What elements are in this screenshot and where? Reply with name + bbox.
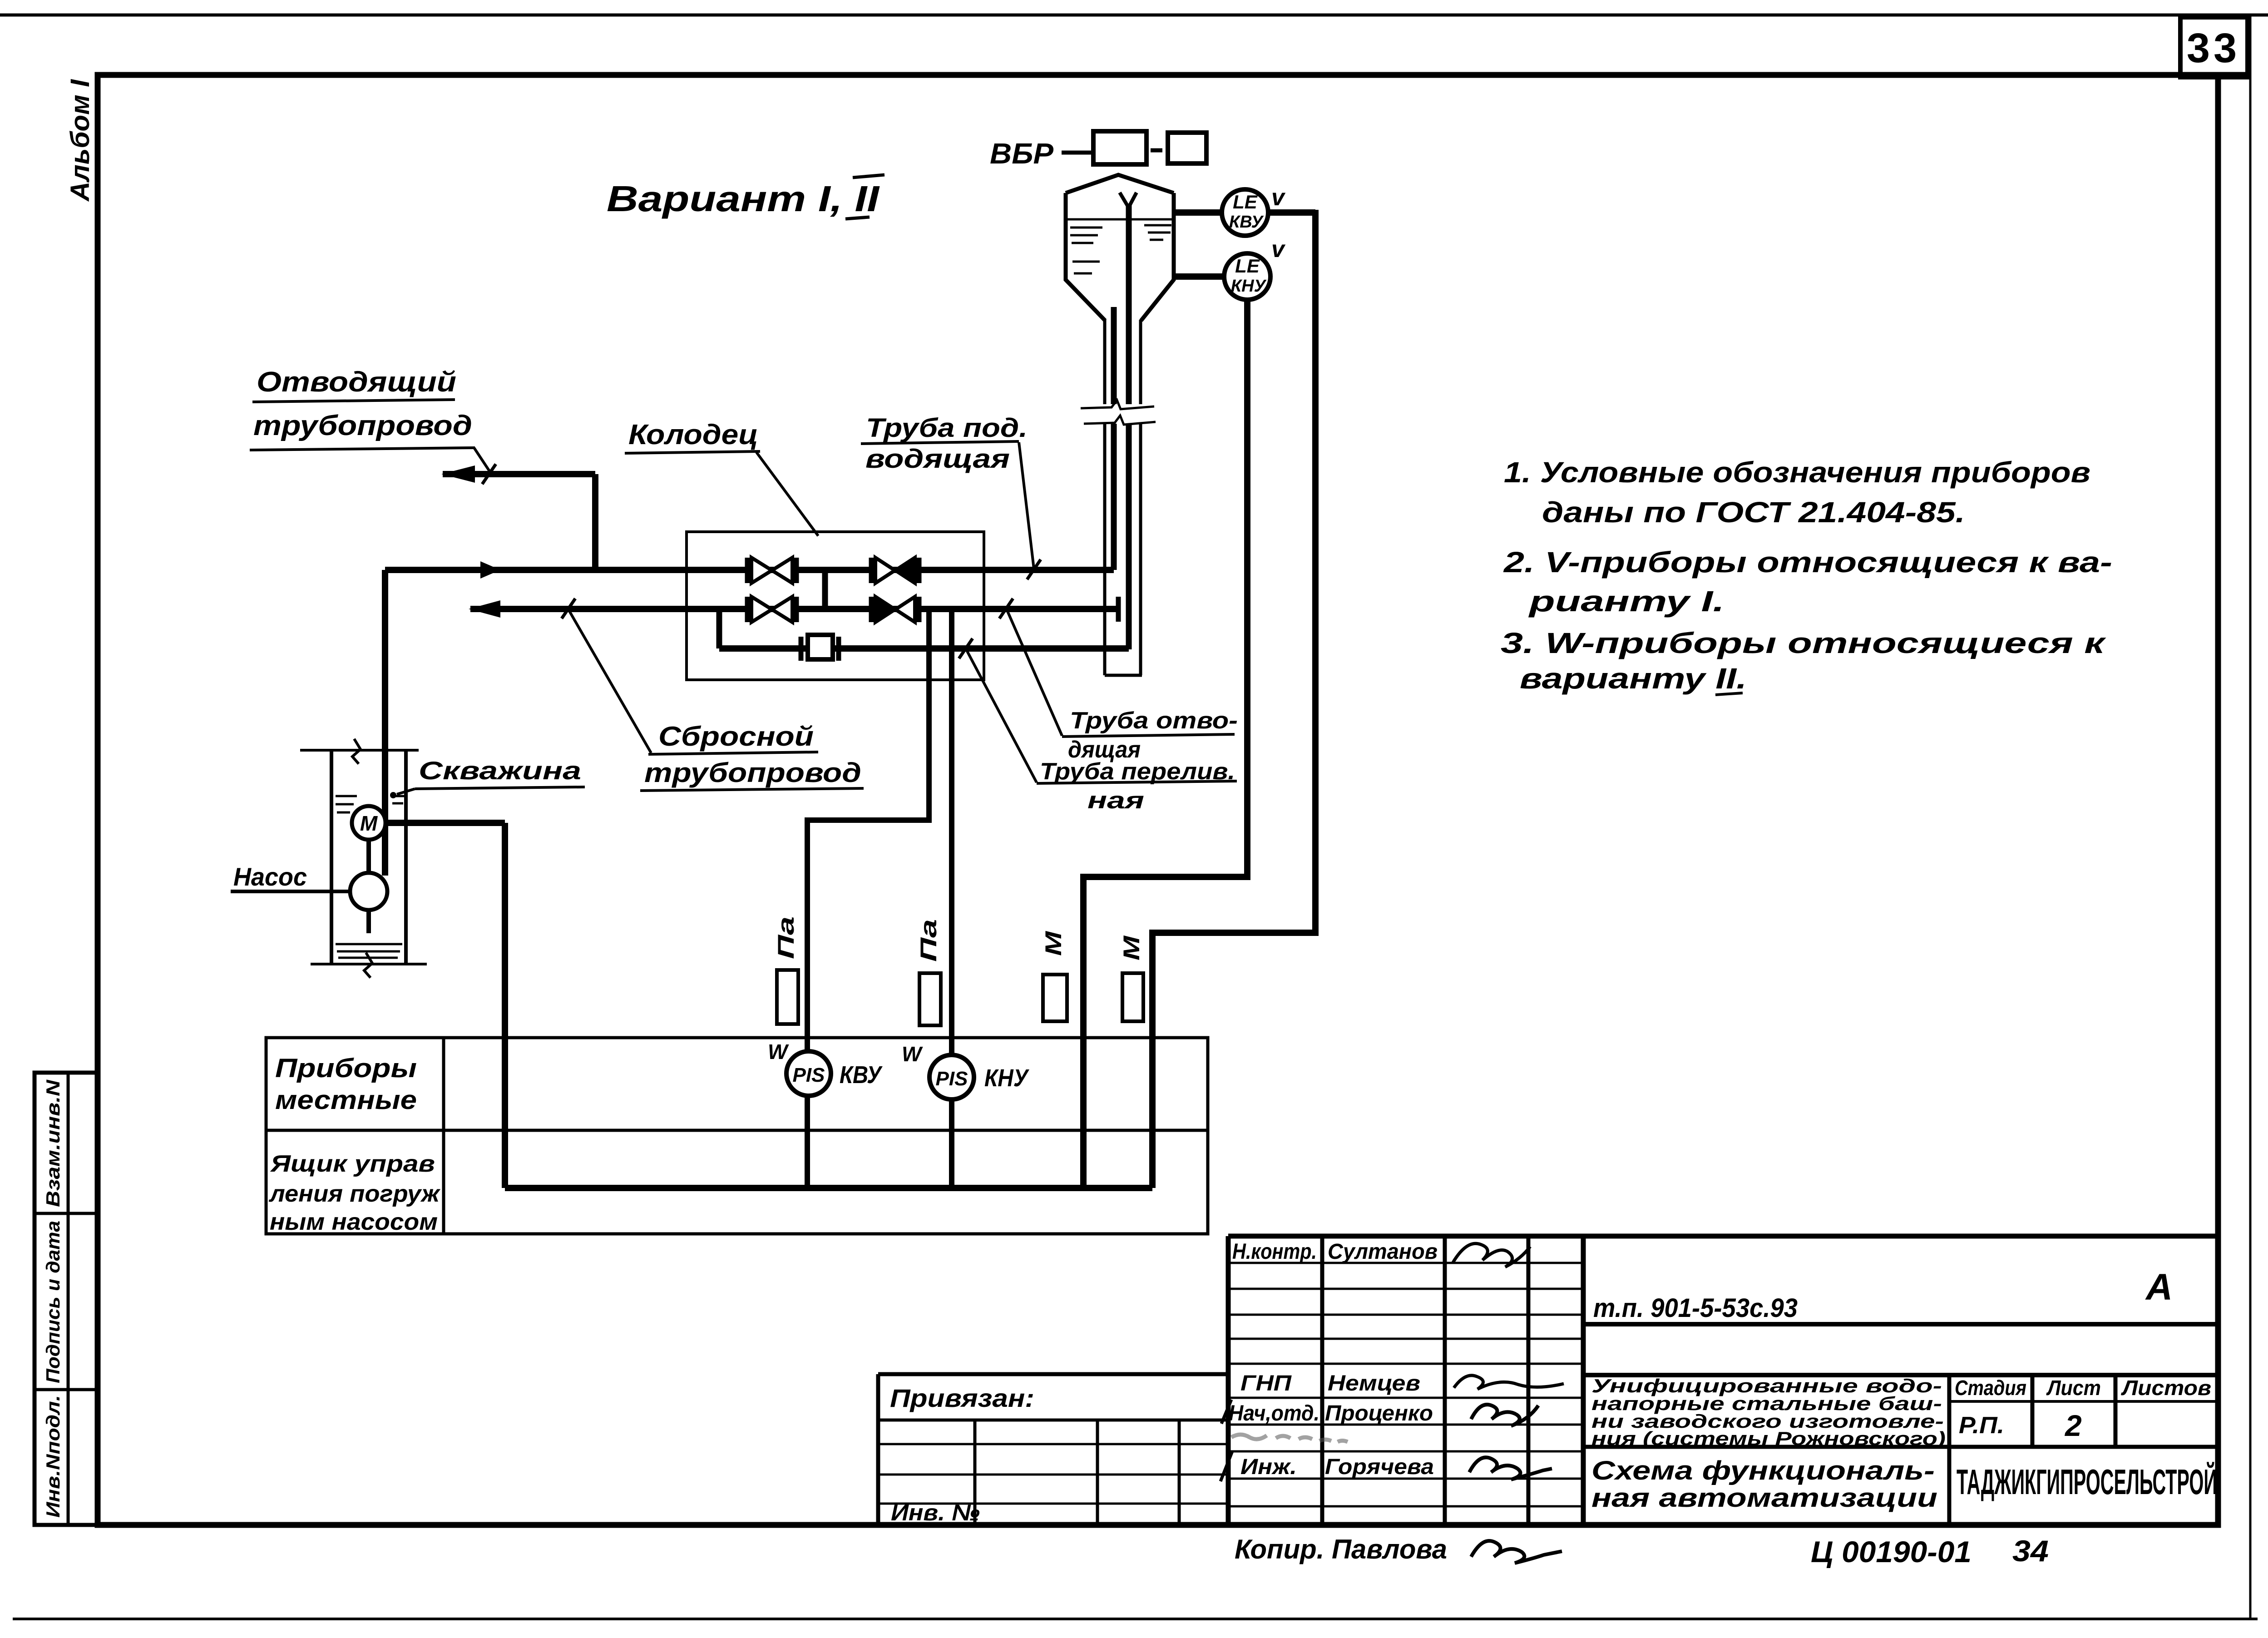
- wire КВУ to right riser: [1268, 209, 1315, 216]
- svg-text:2: 2: [2064, 1409, 2082, 1442]
- svg-text:Р.П.: Р.П.: [1959, 1412, 2004, 1439]
- left stamp column box: [35, 1073, 98, 1525]
- attachment box column lines: [973, 1420, 977, 1525]
- svg-text:Колодец: Колодец: [628, 419, 758, 450]
- svg-text:Альбом I: Альбом I: [65, 79, 95, 202]
- svg-text:Сбросной: Сбросной: [658, 721, 814, 752]
- wire tank to level sensor КВУ: [1174, 209, 1222, 216]
- borehole ground line top with break: [300, 749, 419, 752]
- leader to overflow pipe tick: [967, 651, 1037, 782]
- water hatching right: [1144, 224, 1171, 227]
- svg-text:местные: местные: [275, 1085, 417, 1115]
- right block horizontal line under т.п.: [1583, 1322, 2218, 1326]
- svg-text:Отводящий: Отводящий: [257, 366, 456, 398]
- wire PIS КВУ to bus: [805, 1096, 810, 1188]
- svg-text:Скважина: Скважина: [419, 756, 581, 785]
- svg-text:Стадия: Стадия: [1955, 1376, 2026, 1400]
- pipe break line lower: [1084, 416, 1156, 425]
- water tower tank top: [1066, 175, 1174, 193]
- svg-text:М: М: [1041, 930, 1066, 956]
- svg-text:трубопровод: трубопровод: [253, 410, 472, 441]
- tick on outlet pipe right: [999, 599, 1013, 619]
- water hatching left: [1070, 227, 1102, 229]
- attachment box Привязан: [878, 1372, 1228, 1376]
- control line down to box: [502, 823, 508, 1188]
- tank left wall and funnel: [1066, 193, 1105, 321]
- svg-text:Па: Па: [916, 919, 941, 962]
- outlet pipe end cap: [1116, 597, 1121, 622]
- borehole bottom line with break: [311, 963, 427, 965]
- svg-text:Горячева: Горячева: [1325, 1455, 1434, 1479]
- svg-text:Труба отво-: Труба отво-: [1070, 708, 1238, 734]
- right block horizontal line above project name: [1583, 1373, 2218, 1377]
- signature table column 2 line: [1320, 1236, 1324, 1525]
- instrument table horizontal divider: [266, 1129, 1208, 1132]
- discharge arrowhead: [441, 465, 475, 483]
- svg-text:КНУ: КНУ: [984, 1064, 1029, 1092]
- svg-text:34: 34: [2012, 1534, 2049, 1568]
- svg-text:Султанов: Султанов: [1328, 1240, 1438, 1264]
- block 2 (instrument box): [1168, 133, 1206, 163]
- pump tail line: [366, 910, 371, 933]
- bypass pipe between supply and outlet: [822, 570, 828, 609]
- label Труба отводящая: [1007, 610, 1238, 763]
- pipe break line upper: [1081, 400, 1154, 409]
- svg-text:трубопровод: трубопровод: [644, 757, 861, 788]
- wire PIS КНУ to bus: [949, 1099, 954, 1188]
- submersible pump circle: [350, 873, 387, 910]
- svg-text:Схема функциональ-: Схема функциональ-: [1591, 1456, 1935, 1485]
- motor shaft: [366, 840, 371, 873]
- svg-text:варианту II.: варианту II.: [1520, 662, 1747, 695]
- sheet top edge line: [0, 14, 2268, 17]
- flow device body: [808, 635, 833, 659]
- svg-text:Ящик управ: Ящик управ: [270, 1151, 435, 1177]
- sheet bottom edge line: [13, 1618, 2258, 1620]
- standpipe casing right wall upper: [1139, 320, 1142, 404]
- valve V1 gate valve on supply pipe: [745, 558, 750, 583]
- tank right wall and funnel: [1141, 193, 1174, 321]
- borehole casing left wall: [330, 750, 333, 964]
- label Скважина: [390, 756, 585, 798]
- block 1 (instrument box): [1093, 131, 1146, 164]
- tick on outlet pipe left: [562, 599, 575, 619]
- svg-text:Лист: Лист: [2046, 1376, 2101, 1400]
- supply riser pipe lower: [1111, 424, 1117, 570]
- instrument table outline: [266, 1038, 1208, 1234]
- svg-text:v: v: [1271, 184, 1286, 211]
- stage column dividers: [2031, 1375, 2035, 1447]
- tick on discharge line: [482, 464, 496, 484]
- svg-text:водящая: водящая: [865, 444, 1010, 474]
- svg-text:ным насосом: ным насосом: [270, 1209, 438, 1235]
- valve V4 check valve on outlet pipe: [869, 597, 874, 622]
- svg-text:ГНП: ГНП: [1240, 1371, 1292, 1396]
- svg-text:33: 33: [2187, 25, 2240, 71]
- svg-text:Н.контр.: Н.контр.: [1232, 1240, 1317, 1264]
- svg-text:даны по ГОСТ 21.404-85.: даны по ГОСТ 21.404-85.: [1542, 496, 1965, 529]
- tick on overflow pipe: [959, 638, 973, 658]
- label Труба подводящая: [861, 413, 1034, 569]
- svg-text:М: М: [1119, 935, 1144, 960]
- overflow pipe (central riser upper): [1126, 205, 1132, 404]
- frame top line extension under sheet number box: [2218, 72, 2250, 78]
- svg-text:КВУ: КВУ: [840, 1061, 883, 1089]
- svg-text:1. Условные обозначения прибор: 1. Условные обозначения приборов: [1504, 456, 2090, 489]
- wire tank to level sensor КНУ: [1174, 273, 1225, 280]
- borehole casing right wall: [404, 750, 408, 964]
- control bus in pump control box row: [505, 1185, 1152, 1191]
- signature table row lines: [1228, 1262, 1583, 1264]
- svg-text:LE: LE: [1235, 255, 1260, 277]
- dash between blocks: [1151, 148, 1162, 153]
- outlet arrowhead left: [469, 600, 500, 618]
- svg-text:ТАДЖИКГИПРОСЕЛЬСТРОЙ: ТАДЖИКГИПРОСЕЛЬСТРОЙ: [1957, 1462, 2217, 1502]
- svg-text:Инж.: Инж.: [1240, 1455, 1297, 1479]
- signature table left edge: [1226, 1236, 1231, 1525]
- borehole water hatching top: [336, 795, 357, 797]
- underbar of numeral II in note 3: [1715, 693, 1743, 695]
- slash before Нач.отд.: [1221, 1400, 1231, 1424]
- overflow pipe horizontal: [719, 645, 1129, 652]
- svg-text:2. V-приборы относящиеся к ва-: 2. V-приборы относящиеся к ва-: [1503, 546, 2112, 579]
- standpipe casing right wall lower: [1139, 424, 1142, 675]
- svg-text:W: W: [768, 1040, 789, 1064]
- wire КНУ down: [1083, 300, 1247, 1188]
- leader to supply pipe: [1019, 442, 1034, 569]
- leader to well chamber box: [756, 452, 818, 536]
- svg-text:v: v: [1271, 236, 1286, 262]
- svg-text:Привязан:: Привязан:: [890, 1384, 1034, 1412]
- underbar of numeral II: [845, 217, 870, 219]
- svg-text:т.п. 901-5-53с.93: т.п. 901-5-53с.93: [1593, 1293, 1798, 1323]
- supply pipe left drop into borehole: [382, 570, 388, 876]
- label Сбросной трубопровод: [569, 610, 864, 791]
- svg-text:Листов: Листов: [2121, 1376, 2211, 1400]
- svg-text:Па: Па: [773, 916, 799, 959]
- overflow branch drop from outlet pipe: [716, 609, 722, 648]
- instrument drop line to PIS КНУ: [949, 609, 954, 1054]
- wire motor to control line: [385, 820, 505, 826]
- svg-text:Проценко: Проценко: [1325, 1401, 1433, 1425]
- svg-text:ния (системы Рожновского): ния (системы Рожновского): [1591, 1428, 1946, 1449]
- signature of Горячева: [1469, 1457, 1552, 1480]
- left stamp inner divider: [67, 1073, 70, 1525]
- standpipe casing left wall lower: [1103, 424, 1107, 675]
- smudged stamp row: [1231, 1435, 1348, 1442]
- svg-text:Инв. №: Инв. №: [891, 1500, 980, 1525]
- svg-text:Подпись и дата: Подпись и дата: [42, 1221, 64, 1383]
- svg-text:Труба под.: Труба под.: [866, 413, 1028, 443]
- svg-text:Копир. Павлова: Копир. Павлова: [1235, 1534, 1447, 1564]
- leader to outlet pipe: [569, 610, 651, 753]
- svg-text:PIS: PIS: [936, 1068, 968, 1090]
- pressure switch PIS КВУ: [786, 1051, 831, 1096]
- attachment box row lines: [878, 1419, 1228, 1422]
- instrument table vertical divider: [442, 1038, 445, 1234]
- svg-text:КВУ: КВУ: [1229, 213, 1264, 232]
- valve V2 check valve on supply pipe: [869, 558, 874, 583]
- supply pipe horizontal: [385, 567, 1114, 573]
- notes text block: [1501, 456, 2112, 695]
- label Колодец: [625, 419, 818, 536]
- flow device on overflow pipe flanges: [799, 637, 804, 661]
- connector tag Па 2: [919, 973, 941, 1025]
- outlet pipe horizontal: [470, 606, 1118, 612]
- level sensor LE КВУ: [1222, 189, 1268, 236]
- signature table column 3 line: [1443, 1236, 1447, 1525]
- wire right riser down: [1152, 210, 1315, 1188]
- signature table column 4 line: [1527, 1236, 1531, 1525]
- connector tag Па 1: [777, 970, 798, 1024]
- signature table right edge: [1581, 1236, 1586, 1525]
- leader to discharge line: [474, 448, 493, 476]
- svg-text:3. W-приборы относящиеся к: 3. W-приборы относящиеся к: [1501, 627, 2107, 659]
- left stamp cell divider 1: [35, 1212, 98, 1215]
- overbar of numeral II: [853, 175, 884, 178]
- overflow pipe (central riser lower): [1126, 424, 1132, 649]
- svg-text:ная: ная: [1087, 787, 1144, 814]
- signature of Султанов: [1453, 1243, 1530, 1267]
- overflow funnel Y: [1120, 193, 1128, 207]
- connector tag М 2: [1122, 973, 1143, 1021]
- svg-text:W: W: [902, 1042, 923, 1066]
- svg-text:М: М: [360, 812, 378, 835]
- svg-text:ная автоматизации: ная автоматизации: [1591, 1483, 1937, 1513]
- slash before Инж.: [1220, 1451, 1232, 1481]
- instrument drop line to PIS КВУ: [807, 609, 929, 1051]
- svg-text:Нач,отд.: Нач,отд.: [1229, 1401, 1319, 1425]
- svg-text:Вариант I, II: Вариант I, II: [607, 178, 880, 219]
- title block top edge: [1228, 1234, 2218, 1239]
- standpipe casing left wall upper: [1103, 320, 1107, 404]
- svg-text:Приборы: Приборы: [275, 1054, 417, 1083]
- svg-text:ления погруж: ления погруж: [268, 1181, 441, 1207]
- sheet number box 33: [2180, 17, 2248, 77]
- sheet right edge line: [2249, 15, 2252, 1619]
- svg-text:Немцев: Немцев: [1328, 1371, 1420, 1396]
- svg-text:Инв.Nподл.: Инв.Nподл.: [42, 1395, 64, 1518]
- svg-text:LE: LE: [1233, 191, 1258, 213]
- svg-text:рианту I.: рианту I.: [1528, 585, 1724, 618]
- discharge branch drop: [592, 474, 598, 573]
- signature of Проценко: [1471, 1405, 1538, 1426]
- borehole bottom hatching: [336, 943, 402, 945]
- well chamber box Колодец: [687, 532, 984, 680]
- svg-text:Насос: Насос: [233, 862, 307, 891]
- standpipe casing closed bottom: [1105, 674, 1142, 677]
- pressure switch PIS КНУ: [929, 1055, 974, 1099]
- wire from ВБР to block 1: [1062, 151, 1093, 155]
- water level line: [1066, 218, 1174, 221]
- left stamp cell divider 2: [35, 1388, 98, 1391]
- stage header underline: [1949, 1400, 2218, 1403]
- label Насос: [231, 862, 350, 891]
- svg-text:Ц 00190-01: Ц 00190-01: [1811, 1535, 1972, 1569]
- supply riser pipe upper: [1111, 307, 1117, 404]
- signature of Немцев: [1454, 1376, 1564, 1389]
- svg-text:А: А: [2145, 1267, 2173, 1308]
- label Отводящий трубопровод: [250, 366, 493, 476]
- svg-text:Взам.инв.N: Взам.инв.N: [42, 1079, 64, 1207]
- svg-text:ВБР: ВБР: [990, 137, 1053, 170]
- discharge pipeline with left arrow: [443, 471, 595, 477]
- signature after Копир: [1471, 1541, 1562, 1563]
- svg-text:КНУ: КНУ: [1231, 277, 1267, 296]
- label Труба переливная: [967, 651, 1237, 814]
- leader to outlet pipe tick: [1007, 610, 1062, 736]
- motor M circle: [352, 806, 385, 840]
- flow arrow on supply pipe: [480, 561, 500, 579]
- level sensor LE КНУ: [1224, 253, 1270, 300]
- connector tag М 1: [1043, 975, 1067, 1021]
- divider project name / stages: [1947, 1375, 1952, 1525]
- tick on supply pipe at riser: [1027, 559, 1041, 579]
- svg-text:PIS: PIS: [793, 1064, 825, 1086]
- valve V3 gate valve on outlet pipe: [745, 597, 750, 622]
- right block horizontal line under project name: [1583, 1445, 2218, 1449]
